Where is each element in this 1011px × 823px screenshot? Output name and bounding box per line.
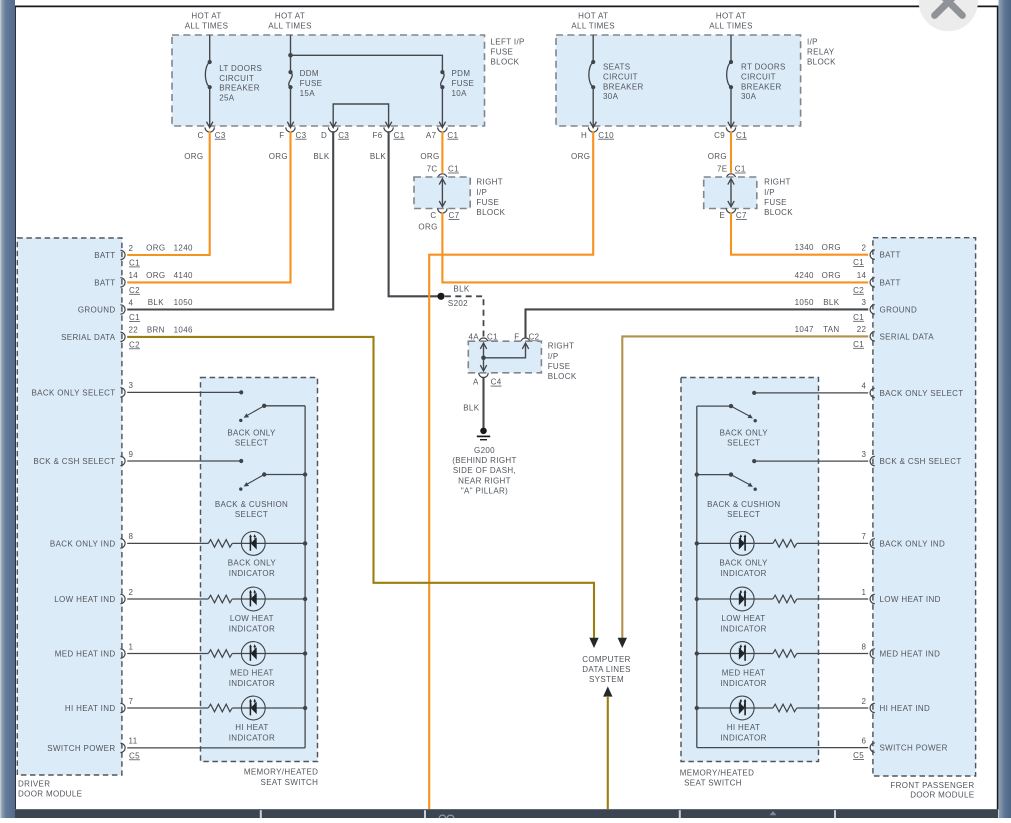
svg-text:FUSE: FUSE <box>476 198 499 207</box>
svg-text:SERIAL DATA: SERIAL DATA <box>880 332 935 341</box>
svg-text:FUSE: FUSE <box>452 79 475 88</box>
fuse DDM 15A <box>288 70 292 89</box>
circuit breaker CB SEATS 30A <box>589 60 595 89</box>
resistor (low heat indicator) <box>208 595 232 603</box>
right I/P fuse block (pass-through below C9) <box>704 177 757 209</box>
svg-text:C1: C1 <box>853 258 864 267</box>
svg-text:BLOCK: BLOCK <box>807 58 836 67</box>
wire switch common bus (passenger switch) <box>696 406 698 747</box>
svg-text:BLK: BLK <box>148 298 164 307</box>
svg-text:BLK: BLK <box>823 298 839 307</box>
LED BACK ONLY INDICATOR <box>241 532 265 556</box>
svg-text:1046: 1046 <box>174 325 193 334</box>
LED LOW HEAT INDICATOR <box>241 587 265 611</box>
wire resistor to LED <box>697 707 773 709</box>
wire ORG 1240 exit C to driver door module BATT pin 2 <box>127 131 210 255</box>
connector C7 pin E <box>726 208 735 213</box>
svg-text:BACK ONLY: BACK ONLY <box>227 429 276 438</box>
connector C10 pin H (I/P relay block exit) <box>589 127 598 132</box>
svg-text:NEAR RIGHT: NEAR RIGHT <box>458 476 511 485</box>
LED HI HEAT INDICATOR <box>241 696 265 720</box>
wire BLK 1050 exit D to driver door module GROUND pin 4 <box>127 131 333 309</box>
svg-text:BATT: BATT <box>880 278 901 287</box>
svg-text:BREAKER: BREAKER <box>741 82 782 91</box>
svg-text:ALL TIMES: ALL TIMES <box>571 22 615 31</box>
svg-text:HI HEAT IND: HI HEAT IND <box>65 704 116 713</box>
svg-text:4140: 4140 <box>174 271 193 280</box>
svg-text:CIRCUIT: CIRCUIT <box>219 74 254 83</box>
wire pin 3 to back &amp; cushion select contact <box>754 460 868 462</box>
svg-text:FUSE: FUSE <box>300 79 323 88</box>
wire resistor to LED <box>697 653 773 655</box>
svg-text:4: 4 <box>129 298 134 307</box>
svg-text:C2: C2 <box>129 286 140 295</box>
svg-text:PDM: PDM <box>452 69 471 78</box>
svg-text:RIGHT: RIGHT <box>764 178 791 187</box>
svg-text:RIGHT: RIGHT <box>548 342 575 351</box>
svg-text:ORG: ORG <box>822 243 841 252</box>
svg-text:7C: 7C <box>427 165 438 174</box>
svg-text:DRIVER: DRIVER <box>18 779 50 788</box>
connector C3 pin F (left I/P fuse block exit) <box>286 127 295 132</box>
svg-text:1050: 1050 <box>174 298 193 307</box>
svg-text:BATT: BATT <box>94 278 115 287</box>
wire resistor to LED <box>232 653 305 655</box>
switch BACK ONLY SELECT <box>264 405 305 407</box>
svg-text:SELECT: SELECT <box>727 438 760 447</box>
svg-text:22: 22 <box>129 326 139 335</box>
connector C4 pin A <box>479 373 488 378</box>
svg-text:10A: 10A <box>452 89 468 98</box>
svg-text:BRN: BRN <box>147 325 165 334</box>
svg-text:9: 9 <box>129 450 134 459</box>
svg-text:25A: 25A <box>219 94 235 103</box>
wire BLK exit F6 to splice S202 <box>389 131 441 296</box>
svg-text:A7: A7 <box>426 131 437 140</box>
junction at bus <box>303 651 307 655</box>
svg-text:ORG: ORG <box>146 244 165 253</box>
junction at bus <box>695 706 699 710</box>
wire resistor to LED <box>697 598 773 600</box>
svg-text:GROUND: GROUND <box>78 306 116 315</box>
svg-text:BACK ONLY: BACK ONLY <box>719 559 768 568</box>
memory/heated seat switch (passenger) <box>681 378 819 762</box>
svg-text:SIDE OF DASH,: SIDE OF DASH, <box>453 466 516 475</box>
I/P relay block <box>556 35 801 126</box>
svg-text:F: F <box>279 131 284 140</box>
svg-text:2: 2 <box>861 697 866 706</box>
svg-text:11: 11 <box>129 737 138 746</box>
svg-text:(BEHIND RIGHT: (BEHIND RIGHT <box>452 456 517 465</box>
svg-text:DDM: DDM <box>300 69 319 78</box>
svg-text:1050: 1050 <box>795 298 814 307</box>
svg-text:C4: C4 <box>491 378 502 387</box>
svg-text:BACK ONLY SELECT: BACK ONLY SELECT <box>32 388 116 397</box>
resistor (back only indicator) <box>208 540 232 548</box>
close button <box>919 0 978 31</box>
ground G200 <box>480 428 487 435</box>
svg-text:SEATS: SEATS <box>603 63 630 72</box>
svg-text:FUSE: FUSE <box>548 362 571 371</box>
svg-text:D: D <box>321 131 327 140</box>
svg-text:ORG: ORG <box>708 152 727 161</box>
svg-text:HOT AT: HOT AT <box>275 11 305 20</box>
internal wire with arrows <box>730 180 732 206</box>
junction at bus <box>303 706 307 710</box>
svg-text:2: 2 <box>129 588 134 597</box>
resistor (hi heat indicator) <box>208 704 232 712</box>
connector C1 pin C9 (I/P relay block exit) <box>726 127 735 132</box>
driver door module <box>17 238 122 775</box>
svg-text:FUSE: FUSE <box>491 48 514 57</box>
resistor (hi heat indicator, passenger) <box>773 704 797 712</box>
svg-text:C: C <box>198 131 204 140</box>
internal wire with arrows <box>441 180 443 206</box>
wire switch common bus (driver switch) <box>304 406 306 748</box>
svg-text:C10: C10 <box>598 131 614 140</box>
svg-text:C1: C1 <box>447 131 458 140</box>
svg-text:8: 8 <box>861 642 866 651</box>
svg-text:MED HEAT IND: MED HEAT IND <box>880 650 941 659</box>
svg-text:ORG: ORG <box>822 271 841 280</box>
svg-text:HOT AT: HOT AT <box>191 11 221 20</box>
svg-text:DATA LINES: DATA LINES <box>582 665 631 674</box>
svg-text:SEAT SWITCH: SEAT SWITCH <box>684 778 742 787</box>
wire ORG 1340 from C7 pin E to passenger door module BATT pin 2 <box>731 212 868 255</box>
bottom toolbar <box>15 809 998 818</box>
svg-text:BLK: BLK <box>463 403 479 412</box>
svg-text:4: 4 <box>861 382 866 391</box>
wire BLK 1050 passenger door module GROUND pin 3 to cavity F C2 <box>526 309 869 338</box>
junction at bus <box>695 651 699 655</box>
wire ORG C9 to right I/P fuse block C1 <box>730 131 732 173</box>
svg-text:"A" PILLAR): "A" PILLAR) <box>461 487 508 496</box>
svg-text:BREAKER: BREAKER <box>219 84 260 93</box>
svg-text:C7: C7 <box>736 211 747 220</box>
svg-text:INDICATOR: INDICATOR <box>720 733 766 742</box>
svg-text:RELAY: RELAY <box>807 48 835 57</box>
junction at bus <box>695 541 699 545</box>
svg-text:C3: C3 <box>338 131 349 140</box>
wire DDM fuse feed <box>290 35 292 72</box>
svg-text:LOW HEAT: LOW HEAT <box>230 614 274 623</box>
svg-text:LOW HEAT IND: LOW HEAT IND <box>54 595 115 604</box>
svg-text:7: 7 <box>129 697 134 706</box>
svg-text:3: 3 <box>861 298 866 307</box>
svg-text:14: 14 <box>129 271 139 280</box>
svg-text:SWITCH POWER: SWITCH POWER <box>47 744 115 753</box>
circuit breaker CB LT DOORS 25A <box>205 60 211 89</box>
svg-text:C1: C1 <box>487 332 498 341</box>
svg-text:BACK ONLY IND: BACK ONLY IND <box>880 539 946 548</box>
wire feed to PDM fuse <box>291 55 443 72</box>
svg-text:SWITCH POWER: SWITCH POWER <box>880 744 948 753</box>
svg-text:22: 22 <box>857 325 867 334</box>
svg-text:BACK ONLY: BACK ONLY <box>720 429 769 438</box>
svg-text:14: 14 <box>857 271 867 280</box>
svg-text:C1: C1 <box>129 313 140 322</box>
wire seats breaker to exit H <box>592 87 594 127</box>
wire seats breaker feed <box>592 35 594 62</box>
svg-text:BCK & CSH SELECT: BCK & CSH SELECT <box>880 457 962 466</box>
svg-text:HOT AT: HOT AT <box>578 11 608 20</box>
svg-text:MEMORY/HEATED: MEMORY/HEATED <box>680 768 754 777</box>
svg-text:I/P: I/P <box>476 188 487 197</box>
svg-text:DOOR MODULE: DOOR MODULE <box>910 791 974 800</box>
svg-text:C1: C1 <box>853 313 864 322</box>
junction at bus <box>303 597 307 601</box>
junction at bus <box>695 597 699 601</box>
svg-text:C2: C2 <box>129 340 140 349</box>
wire resistor to LED <box>232 707 305 709</box>
svg-text:7: 7 <box>861 532 866 541</box>
svg-text:ORG: ORG <box>418 223 437 232</box>
wire LOW HEAT IND pin to resistor (passenger) <box>797 598 868 600</box>
connector C3 pin D (left I/P fuse block exit) <box>329 127 338 132</box>
svg-text:BLK: BLK <box>313 152 329 161</box>
wire resistor to LED <box>232 542 305 544</box>
svg-text:LEFT I/P: LEFT I/P <box>491 38 525 47</box>
svg-text:C2: C2 <box>853 286 864 295</box>
LED LOW HEAT INDICATOR (passenger) <box>730 587 754 611</box>
switch BACK &amp; CUSHION SELECT (passenger) <box>697 474 731 476</box>
connector C7 pin C <box>438 208 447 213</box>
wire MED HEAT IND pin to resistor (passenger) <box>797 653 868 655</box>
svg-text:SELECT: SELECT <box>235 438 268 447</box>
wire LT doors breaker feed <box>209 35 211 62</box>
left I/P fuse block <box>172 35 485 126</box>
svg-text:INDICATOR: INDICATOR <box>229 733 275 742</box>
svg-text:INDICATOR: INDICATOR <box>720 569 766 578</box>
wire PDM fuse to exit A7 <box>441 87 443 127</box>
wire TAN from data lines system off-page bottom <box>603 686 612 696</box>
svg-text:BATT: BATT <box>94 251 115 260</box>
wire jumper D to F6 <box>333 104 388 127</box>
svg-text:C1: C1 <box>853 340 864 349</box>
svg-text:C3: C3 <box>215 131 226 140</box>
svg-text:HOT AT: HOT AT <box>716 11 746 20</box>
svg-text:COMPUTER: COMPUTER <box>582 655 631 664</box>
svg-text:HI HEAT IND: HI HEAT IND <box>880 704 931 713</box>
svg-text:1: 1 <box>129 642 134 651</box>
connector C1 pin F6 (left I/P fuse block exit) <box>384 127 393 132</box>
svg-text:C5: C5 <box>129 751 140 760</box>
svg-text:SELECT: SELECT <box>727 510 760 519</box>
wire pin 3 to back only select contact <box>127 391 241 393</box>
svg-text:1240: 1240 <box>174 244 193 253</box>
svg-text:4A: 4A <box>469 332 480 341</box>
svg-text:BACK ONLY IND: BACK ONLY IND <box>50 539 116 548</box>
svg-text:ORG: ORG <box>269 152 288 161</box>
svg-text:3: 3 <box>861 450 866 459</box>
svg-text:SELECT: SELECT <box>235 510 268 519</box>
svg-text:C1: C1 <box>129 259 140 268</box>
page border frame <box>15 5 998 7</box>
svg-text:BCK & CSH SELECT: BCK & CSH SELECT <box>33 457 115 466</box>
svg-text:1: 1 <box>861 588 866 597</box>
svg-text:A: A <box>473 378 479 387</box>
svg-text:SERIAL DATA: SERIAL DATA <box>61 333 116 342</box>
wire TAN 1047 passenger door module SERIAL DATA to data lines system <box>622 336 868 638</box>
svg-text:MED HEAT IND: MED HEAT IND <box>55 650 116 659</box>
svg-text:C3: C3 <box>296 131 307 140</box>
svg-text:RT DOORS: RT DOORS <box>741 63 786 72</box>
svg-text:FRONT PASSENGER: FRONT PASSENGER <box>890 781 974 790</box>
svg-text:TAN: TAN <box>823 325 839 334</box>
wire pin 4 to back only select contact <box>754 392 868 394</box>
wire resistor to LED <box>232 598 305 600</box>
wire ORG 4240 from C7 to passenger door module BATT pin 14 <box>442 212 868 282</box>
wire BACK ONLY IND pin to resistor <box>127 542 208 544</box>
svg-text:MED HEAT: MED HEAT <box>722 669 766 678</box>
svg-text:C1: C1 <box>448 165 459 174</box>
svg-text:BACK ONLY SELECT: BACK ONLY SELECT <box>880 389 964 398</box>
internal ground bus with arrows <box>483 345 485 370</box>
LED MED HEAT INDICATOR (passenger) <box>730 642 754 666</box>
right I/P fuse block (pass-through below A7) <box>414 177 470 209</box>
svg-text:SEAT SWITCH: SEAT SWITCH <box>261 778 319 787</box>
svg-text:BATT: BATT <box>880 251 901 260</box>
svg-text:30A: 30A <box>603 92 619 101</box>
svg-text:G200: G200 <box>474 446 495 455</box>
svg-text:FUSE: FUSE <box>764 198 787 207</box>
svg-text:GROUND: GROUND <box>880 305 918 314</box>
wire BRN 1046 driver door module SERIAL DATA to data lines system <box>127 337 594 639</box>
wire ORG A7 to right I/P fuse block C1 <box>441 131 443 173</box>
svg-text:DOOR MODULE: DOOR MODULE <box>18 790 82 799</box>
svg-text:1340: 1340 <box>795 243 814 252</box>
svg-text:E: E <box>719 211 725 220</box>
svg-text:I/P: I/P <box>548 352 559 361</box>
wire MED HEAT IND pin to resistor <box>127 653 208 655</box>
wire SWITCH POWER pin 6 to bus (passenger) <box>697 747 868 749</box>
svg-text:6: 6 <box>861 736 866 745</box>
junction DDM/PDM feed <box>288 53 293 58</box>
svg-text:BACK & CUSHION: BACK & CUSHION <box>215 500 288 509</box>
splice S202 <box>437 293 444 300</box>
svg-text:LOW HEAT IND: LOW HEAT IND <box>880 595 941 604</box>
right window edge strip <box>999 0 1011 818</box>
wire SWITCH POWER pin 11 to bus <box>127 747 305 749</box>
right I/P fuse block (ground junction) <box>468 341 541 373</box>
wire ORG 4140 exit F to driver door module BATT pin 14 <box>127 131 290 282</box>
svg-text:BLOCK: BLOCK <box>491 58 520 67</box>
svg-text:2: 2 <box>861 244 866 253</box>
fuse PDM 10A <box>440 70 444 89</box>
svg-text:2: 2 <box>129 244 134 253</box>
junction internal ground <box>481 356 486 361</box>
wire resistor to LED <box>697 542 773 544</box>
resistor (low heat indicator, passenger) <box>773 595 797 603</box>
svg-text:C7: C7 <box>449 211 460 220</box>
wire LT doors breaker to exit C <box>209 87 211 127</box>
wire BLK pin A to ground G200 <box>482 377 484 428</box>
svg-text:CIRCUIT: CIRCUIT <box>741 72 776 81</box>
svg-text:ORG: ORG <box>571 152 590 161</box>
wire BACK ONLY IND pin to resistor (passenger) <box>797 542 868 544</box>
svg-text:C1: C1 <box>394 131 405 140</box>
resistor (med heat indicator) <box>208 650 232 658</box>
connector C1 pin A7 (left I/P fuse block exit) <box>438 127 447 132</box>
wire HI HEAT IND pin to resistor <box>127 707 208 709</box>
wire ORG exit H down-left and off-page bottom <box>429 131 593 809</box>
wire BLK dashed S202 to fuse block cavity 4A <box>445 296 484 338</box>
svg-text:C9: C9 <box>714 131 725 140</box>
svg-text:15A: 15A <box>300 89 316 98</box>
svg-text:F6: F6 <box>373 131 383 140</box>
svg-text:C2: C2 <box>529 332 540 341</box>
svg-text:BLOCK: BLOCK <box>476 208 505 217</box>
svg-text:ORG: ORG <box>146 271 165 280</box>
svg-text:C1: C1 <box>735 165 746 174</box>
svg-text:INDICATOR: INDICATOR <box>229 624 275 633</box>
wire DDM fuse to exit F <box>290 87 292 127</box>
svg-text:I/P: I/P <box>807 38 818 47</box>
svg-text:BLOCK: BLOCK <box>764 208 793 217</box>
LED HI HEAT INDICATOR (passenger) <box>730 696 754 720</box>
wire HI HEAT IND pin to resistor (passenger) <box>797 707 868 709</box>
connector C3 pin C (left I/P fuse block exit) <box>205 127 214 132</box>
svg-text:LOW HEAT: LOW HEAT <box>722 614 766 623</box>
wire RT doors breaker feed <box>730 35 732 62</box>
resistor (med heat indicator, passenger) <box>773 650 797 658</box>
svg-text:INDICATOR: INDICATOR <box>229 679 275 688</box>
svg-text:INDICATOR: INDICATOR <box>720 624 766 633</box>
switch BACK ONLY SELECT (passenger) <box>697 405 731 407</box>
LED BACK ONLY INDICATOR (passenger) <box>730 532 754 556</box>
svg-text:RIGHT: RIGHT <box>476 178 503 187</box>
svg-text:INDICATOR: INDICATOR <box>720 679 766 688</box>
svg-text:I/P: I/P <box>764 188 775 197</box>
svg-text:1047: 1047 <box>795 325 814 334</box>
svg-text:CIRCUIT: CIRCUIT <box>603 72 638 81</box>
LED MED HEAT INDICATOR <box>241 642 265 666</box>
svg-text:HI HEAT: HI HEAT <box>727 723 760 732</box>
svg-text:ORG: ORG <box>184 152 203 161</box>
svg-text:BREAKER: BREAKER <box>603 82 644 91</box>
svg-text:30A: 30A <box>741 92 757 101</box>
wire pin 9 to back &amp; cushion select contact <box>127 460 241 462</box>
front passenger door module <box>873 238 976 776</box>
left window edge strip <box>0 0 15 818</box>
memory/heated seat switch (driver) <box>201 378 318 762</box>
svg-text:BACK & CUSHION: BACK & CUSHION <box>707 500 780 509</box>
svg-text:ALL TIMES: ALL TIMES <box>268 22 312 31</box>
svg-text:ORG: ORG <box>420 152 439 161</box>
svg-text:C: C <box>430 211 436 220</box>
svg-text:BACK ONLY: BACK ONLY <box>228 559 277 568</box>
circuit breaker CB RT DOORS 30A <box>727 60 733 89</box>
svg-text:3: 3 <box>129 381 134 390</box>
svg-text:S202: S202 <box>448 299 468 308</box>
svg-text:MED HEAT: MED HEAT <box>230 669 274 678</box>
svg-text:ALL TIMES: ALL TIMES <box>709 22 753 31</box>
svg-text:SYSTEM: SYSTEM <box>589 675 624 684</box>
svg-text:8: 8 <box>129 532 134 541</box>
svg-text:ALL TIMES: ALL TIMES <box>185 22 229 31</box>
svg-text:INDICATOR: INDICATOR <box>229 569 275 578</box>
svg-text:C1: C1 <box>736 131 747 140</box>
junction at bus <box>303 541 307 545</box>
svg-text:BLK: BLK <box>370 152 386 161</box>
switch BACK &amp; CUSHION SELECT <box>264 474 305 476</box>
svg-text:7E: 7E <box>717 165 728 174</box>
svg-text:LT DOORS: LT DOORS <box>219 64 262 73</box>
svg-text:F: F <box>514 332 519 341</box>
wire LOW HEAT IND pin to resistor <box>127 598 208 600</box>
svg-text:HI HEAT: HI HEAT <box>235 723 268 732</box>
svg-text:4240: 4240 <box>795 271 814 280</box>
